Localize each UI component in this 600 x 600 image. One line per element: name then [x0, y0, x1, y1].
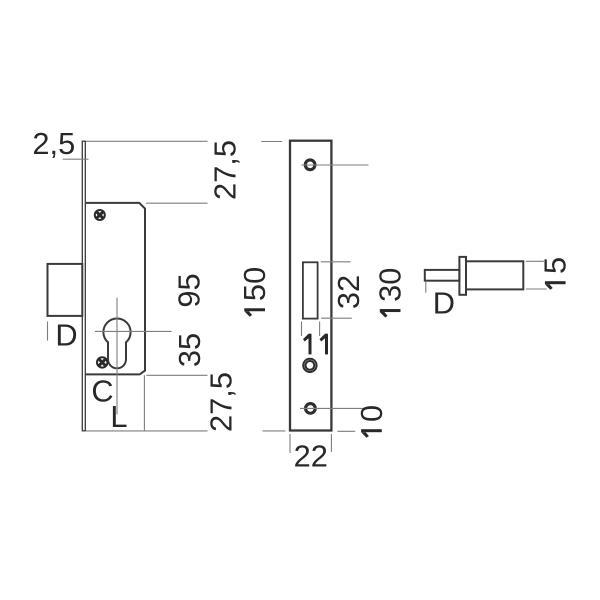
top hole centerline [301, 164, 368, 166]
svg-text:35: 35 [172, 333, 207, 367]
svg-text:50: 50 [237, 267, 272, 301]
extension line 22 right [330, 434, 332, 452]
latch pin body [466, 261, 523, 289]
label 10 [354, 405, 389, 438]
leader line for 2,5 [63, 158, 89, 160]
faceplate side view [82, 141, 85, 431]
svg-text:30: 30 [373, 268, 408, 302]
svg-text:27,5: 27,5 [204, 372, 239, 432]
extension line 15 bottom [526, 288, 547, 290]
extension line for D (latch diameter) [47, 322, 49, 341]
latch pin shaft [425, 270, 460, 281]
cylinder fixing hole inner [306, 361, 315, 370]
extension line body top [146, 202, 208, 204]
top screw hole [305, 160, 315, 170]
cylinder horizontal centerline [95, 330, 172, 332]
svg-text:95: 95 [172, 273, 207, 307]
extension line 15 top [526, 260, 544, 262]
bottom reference line left segment [86, 430, 208, 432]
label 130 [373, 268, 408, 318]
extension line body bottom [147, 374, 208, 376]
latch bolt side view [48, 264, 83, 316]
svg-text:L: L [110, 399, 127, 434]
front view faceplate [290, 141, 331, 431]
label 15 [538, 257, 573, 290]
extension line 22 left [289, 434, 291, 453]
svg-text:0: 0 [354, 405, 389, 422]
vertical extension of body right edge [143, 375, 145, 431]
extension line 11 right [319, 322, 321, 337]
slot bottom extension line [321, 317, 352, 319]
label 150 [237, 267, 272, 317]
svg-text:22: 22 [294, 439, 328, 474]
bottom hole centerline [300, 407, 368, 409]
euro cylinder cutout [103, 319, 130, 369]
svg-text:D: D [433, 285, 455, 320]
svg-text:2,5: 2,5 [32, 126, 75, 161]
label 11 [303, 334, 328, 355]
latch slot cutout [303, 262, 318, 318]
svg-text:D: D [55, 318, 77, 353]
top reference line segment right of 27,5 label [261, 141, 282, 143]
extension line 11 left [301, 322, 303, 337]
bottom reference line middle segment [263, 430, 286, 432]
svg-text:32: 32 [331, 275, 366, 309]
latch pin flange [459, 257, 466, 295]
screw S1 [95, 210, 105, 220]
top reference line at faceplate top [86, 140, 208, 142]
extension line for D (pin diameter) [425, 282, 427, 293]
svg-text:27,5: 27,5 [208, 140, 243, 200]
bottom reference line right segment for 10 [337, 430, 355, 432]
svg-text:5: 5 [538, 257, 573, 274]
cylinder vertical centerline [116, 298, 118, 415]
bottom screw hole [306, 404, 316, 414]
slot top extension line [321, 261, 351, 263]
cylinder fixing hole outer [303, 359, 316, 372]
lock body outline [86, 203, 145, 375]
screw S2 [97, 357, 107, 367]
